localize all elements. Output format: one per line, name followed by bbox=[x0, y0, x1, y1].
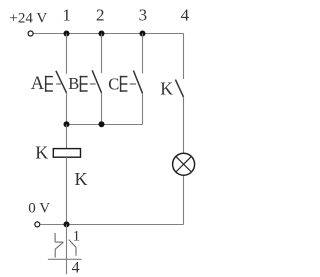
label switch A bbox=[31, 74, 45, 94]
contact B (NO) bbox=[92, 70, 101, 93]
relay K armature reference line bbox=[66, 225, 68, 275]
wire +24V rail bbox=[34, 33, 184, 35]
relay contact K (NO) bbox=[175, 80, 183, 97]
svg-text:K: K bbox=[75, 169, 88, 189]
label 0 V bbox=[28, 201, 50, 217]
actuator link B bbox=[90, 83, 96, 85]
wire coil feed bbox=[66, 125, 68, 149]
pushbutton actuator A bbox=[45, 76, 53, 92]
contact reference pin 1 bbox=[73, 229, 81, 245]
svg-text:4: 4 bbox=[72, 260, 80, 277]
label switch C bbox=[108, 74, 119, 93]
svg-text:C: C bbox=[108, 74, 119, 93]
pushbutton actuator C bbox=[120, 76, 128, 92]
contact C (NO) bbox=[133, 71, 142, 94]
contact reference pin 4 bbox=[72, 260, 80, 277]
current path number 1 bbox=[62, 6, 71, 25]
node junction path 2 bbox=[99, 121, 105, 127]
svg-text:1: 1 bbox=[73, 229, 81, 245]
wire 0V rail bbox=[40, 224, 183, 226]
wire path 1 upper bbox=[66, 34, 68, 74]
actuator link C bbox=[130, 83, 136, 85]
node path 3 top bbox=[140, 31, 146, 37]
wire path 1 lower bbox=[66, 93, 68, 125]
svg-text:A: A bbox=[31, 74, 45, 94]
label relay coil K bbox=[35, 143, 48, 163]
0V supply terminal bbox=[35, 222, 40, 227]
pushbutton actuator B bbox=[80, 76, 88, 92]
svg-text:B: B bbox=[68, 74, 79, 93]
+24V supply terminal bbox=[28, 31, 33, 36]
wire path 3 upper bbox=[142, 34, 144, 74]
svg-text:0 V: 0 V bbox=[28, 201, 50, 217]
wire path 4 to lamp bbox=[183, 97, 185, 153]
node 0V path 1 bbox=[64, 221, 70, 227]
current path number 3 bbox=[139, 6, 148, 25]
contact A (NO) bbox=[56, 71, 67, 93]
svg-text:4: 4 bbox=[181, 6, 190, 25]
wire path 4 upper bbox=[183, 34, 185, 80]
label +24 V bbox=[9, 11, 47, 27]
svg-text:+24 V: +24 V bbox=[9, 11, 47, 27]
label switch B bbox=[68, 74, 79, 93]
contact reference separator bbox=[48, 258, 82, 260]
svg-text:3: 3 bbox=[139, 6, 148, 25]
svg-text:2: 2 bbox=[96, 6, 105, 25]
svg-text:1: 1 bbox=[62, 6, 71, 25]
current path number 2 bbox=[96, 6, 105, 25]
node path 1 top bbox=[64, 31, 70, 37]
contact reference right contact bbox=[69, 240, 76, 256]
wire junction rail bbox=[67, 124, 143, 126]
node path 2 top bbox=[99, 31, 105, 37]
wire path 2 lower bbox=[101, 93, 103, 125]
actuator link A bbox=[56, 83, 61, 85]
svg-text:K: K bbox=[160, 78, 173, 98]
wire lamp to 0V rail bbox=[183, 176, 185, 225]
wire coil to 0V rail bbox=[66, 157, 68, 224]
label coil output K bbox=[75, 169, 88, 189]
node junction path 1 bbox=[64, 121, 70, 127]
lamp H1 bbox=[173, 153, 195, 175]
relay coil K bbox=[53, 149, 80, 158]
contact reference left contact bbox=[55, 233, 63, 258]
wire path 3 lower bbox=[142, 93, 144, 124]
label relay contact K bbox=[160, 78, 173, 98]
current path number 4 bbox=[181, 6, 190, 25]
svg-text:K: K bbox=[35, 143, 48, 163]
wire path 2 upper bbox=[101, 34, 103, 74]
